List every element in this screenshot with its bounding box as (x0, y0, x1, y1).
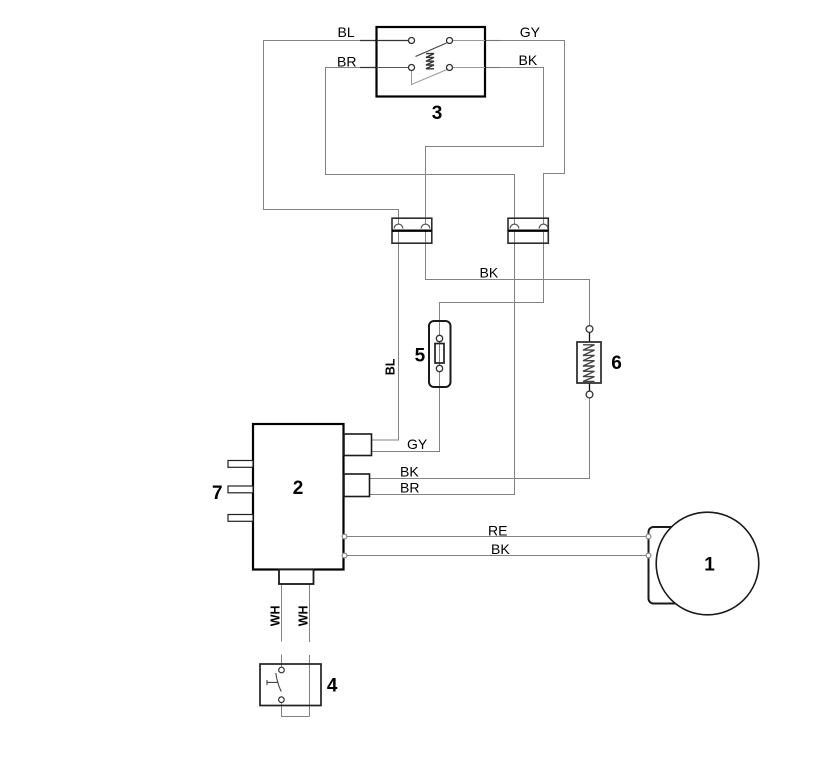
wire RE unit 2 to motor 1 (345, 536, 649, 538)
relay contact arm (416, 43, 447, 57)
fuse terminal bottom (436, 365, 442, 371)
svg-text:BR: BR (337, 54, 356, 70)
pins 7 (228, 461, 253, 522)
unit 2 terminal RE (342, 534, 347, 539)
wire BK unit 2 to motor 1 (345, 555, 649, 557)
relay pin stub BR (360, 67, 377, 69)
relay internal lead top-right (453, 40, 486, 42)
fuse terminal top (436, 335, 442, 341)
resistor 6 (577, 326, 601, 398)
motor terminal RE (646, 534, 651, 539)
unit 2 bottom stub (279, 570, 314, 585)
svg-text:BK: BK (480, 265, 499, 281)
switch terminal top (279, 667, 285, 673)
connector upper left (392, 218, 432, 243)
relay internal lead bottom-right (453, 67, 486, 69)
svg-text:GY: GY (520, 24, 541, 40)
relay terminal top-left (409, 38, 415, 44)
wire WH left unit 2 to switch 4 (282, 584, 310, 717)
motor terminal BK (646, 553, 651, 558)
relay pin stub BL (360, 40, 377, 42)
relay internal lead top-left (377, 40, 409, 42)
pin 7 top (228, 461, 253, 468)
svg-text:3: 3 (432, 103, 443, 124)
svg-text:7: 7 (212, 483, 223, 504)
relay pin stub BK (485, 67, 500, 69)
wire fuse 5 bottom to unit 2 GY pin (372, 338, 440, 452)
svg-text:1: 1 (704, 555, 715, 576)
fuse element (435, 344, 444, 364)
relay box (377, 27, 486, 97)
pin 7 bottom (228, 515, 253, 522)
svg-text:BL: BL (338, 24, 355, 40)
svg-text:5: 5 (415, 346, 426, 367)
switch 4 (260, 664, 321, 706)
wire GY relay 3 to fuse 5 top (440, 41, 565, 339)
unit 2 GY pin stub (344, 434, 372, 456)
svg-text:BL: BL (383, 358, 397, 375)
switch terminal bottom (279, 697, 285, 703)
resistor terminal bottom (586, 391, 593, 398)
resistor top lead (589, 333, 591, 343)
relay internal lead bottom-left (377, 67, 409, 69)
resistor bottom lead (589, 383, 591, 391)
relay 3 (360, 27, 500, 97)
switch arm (276, 673, 282, 692)
svg-text:BR: BR (400, 480, 419, 496)
svg-text:2: 2 (293, 478, 304, 499)
svg-text:BK: BK (400, 464, 419, 480)
resistor terminal top (586, 326, 593, 333)
svg-text:BK: BK (519, 52, 538, 68)
connector upper right (508, 218, 548, 243)
wire BL relay 3 to connector to unit 2 GY pin (264, 41, 399, 441)
wire BR relay 3 to unit 2 BR pin (326, 68, 515, 495)
relay terminal bottom-left (409, 65, 415, 71)
svg-text:BK: BK (491, 541, 510, 557)
wire resistor 6 bottom to unit 2 BK pin (370, 395, 590, 479)
unit 2 BK BR pin stub (344, 474, 370, 497)
relay terminal bottom-right (447, 65, 453, 71)
svg-text:WH: WH (297, 605, 311, 626)
motor body (649, 527, 694, 604)
motor 1 (646, 512, 759, 615)
unit 2 terminal BK (342, 553, 347, 558)
svg-text:4: 4 (327, 676, 338, 697)
svg-text:WH: WH (269, 605, 283, 626)
pin 7 middle (228, 486, 253, 493)
fuse 5 (429, 321, 451, 387)
resistor winding (583, 345, 595, 382)
svg-text:6: 6 (611, 353, 622, 374)
svg-text:GY: GY (407, 436, 428, 452)
relay pin stub GY (485, 40, 500, 42)
switch actuator (267, 680, 278, 685)
wire WH right unit 2 through switch 4 (309, 584, 311, 717)
motor circle (656, 512, 759, 615)
svg-text:RE: RE (488, 523, 507, 539)
relay terminal top-right (447, 38, 453, 44)
wire BK relay 3 to resistor 6 top (426, 68, 590, 330)
control unit 2 (253, 424, 372, 584)
relay coil (426, 54, 434, 69)
relay lower contact (412, 70, 448, 85)
